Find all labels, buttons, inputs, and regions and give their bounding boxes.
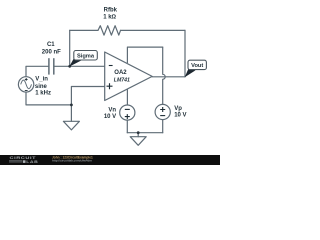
wire Rfbk right lead to right vertical [121, 29, 186, 31]
svg-text:Rfbk: Rfbk [104, 8, 118, 14]
svg-text:sine: sine [35, 84, 48, 90]
wire V_in top to C1 [26, 66, 49, 76]
wire V_in bottom [26, 92, 71, 105]
wire op-amp non-inverting input [71, 87, 104, 105]
wire bottom rail between Vn and Vp [127, 132, 162, 134]
svg-text:Vn: Vn [108, 107, 116, 113]
node Sigma junction dot [68, 65, 71, 68]
op-amp plus input mark [107, 83, 113, 89]
flag Vout [185, 60, 207, 77]
svg-text:http://circuitlab.com/c6w4dm: http://circuitlab.com/c6w4dm [52, 158, 92, 162]
wire Vn bottom [126, 120, 128, 133]
ground GND2 [130, 137, 146, 146]
resistor Rfbk zigzag [98, 26, 121, 35]
wire Rfbk left lead [70, 29, 98, 31]
wire ground GND1 stub [70, 105, 72, 121]
op-amp minus input mark [109, 65, 113, 67]
wire ground GND2 stub [137, 133, 139, 137]
svg-text:Vout: Vout [191, 63, 203, 69]
wire op-amp V- pin down to Vn [126, 82, 128, 105]
footer CircuitLab logo [9, 156, 38, 164]
flag Sigma [69, 51, 97, 67]
svg-text:10 V: 10 V [104, 114, 116, 120]
source Vn [120, 105, 135, 120]
wire V+ loop down to Vp with hop over output wire [163, 47, 166, 104]
wire C1 to op-amp inverting input [54, 65, 104, 67]
svg-text:10 V: 10 V [174, 112, 186, 118]
wire op-amp output [152, 76, 185, 78]
svg-text:LM741: LM741 [114, 77, 130, 83]
footer bar [0, 155, 220, 165]
node junction dot supplies/ground [137, 131, 140, 134]
capacitor C1 [49, 58, 54, 74]
op-amp U1 OA2 LM741 [105, 52, 153, 101]
wire feedback left vertical (Sigma node up to Rfbk) [69, 30, 71, 66]
svg-text:Vp: Vp [174, 106, 182, 112]
svg-text:1 kHz: 1 kHz [35, 90, 51, 96]
ground GND1 [63, 121, 79, 130]
wire op-amp V+ pin to loop top [127, 47, 162, 62]
svg-text:C1: C1 [47, 42, 55, 48]
svg-text:Sigma: Sigma [77, 53, 95, 59]
svg-text:OA2: OA2 [114, 70, 127, 76]
node junction dot V_in/ground/non-inv [70, 104, 73, 107]
wire feedback right vertical down to output [184, 30, 186, 76]
source V_in sine [18, 77, 33, 92]
svg-text:1 kΩ: 1 kΩ [103, 15, 116, 21]
svg-text:V_in: V_in [35, 77, 48, 83]
wire Vp bottom [162, 120, 164, 133]
source Vp [155, 104, 170, 119]
svg-text:LAB: LAB [26, 160, 38, 164]
svg-text:200 nF: 200 nF [42, 50, 61, 56]
